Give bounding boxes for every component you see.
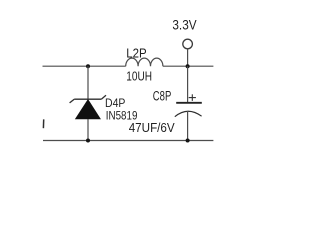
node junction at capacitor bottom xyxy=(186,139,190,143)
node junction at diode top xyxy=(86,64,90,68)
power terminal 3.3V circle xyxy=(183,39,193,49)
wire capacitor bottom stem xyxy=(187,111,189,141)
node junction at capacitor top xyxy=(186,64,190,68)
wire top rail right segment xyxy=(163,65,214,67)
wire capacitor top stem xyxy=(187,66,189,102)
node junction at diode bottom xyxy=(86,139,90,143)
svg-text:C8P: C8P xyxy=(153,88,172,103)
capacitor C8P plus sign xyxy=(189,94,196,101)
wire terminal stem xyxy=(187,49,189,66)
diode D4P cathode bar xyxy=(70,95,106,103)
svg-text:3.3V: 3.3V xyxy=(172,17,196,32)
svg-text:10UH: 10UH xyxy=(126,69,152,84)
wire top rail left segment xyxy=(43,65,126,67)
capacitor C8P positive plate xyxy=(176,102,202,104)
svg-text:47UF/6V: 47UF/6V xyxy=(129,120,175,135)
wire bottom rail xyxy=(43,140,213,142)
wire diode cathode drop xyxy=(87,119,89,141)
wire diode anode drop xyxy=(87,66,89,99)
inductor L2P xyxy=(126,58,163,66)
capacitor C8P curved plate xyxy=(175,111,202,116)
svg-text:L2P: L2P xyxy=(126,45,146,60)
diode D4P triangle xyxy=(75,100,100,119)
text fragment at left edge xyxy=(42,119,44,128)
